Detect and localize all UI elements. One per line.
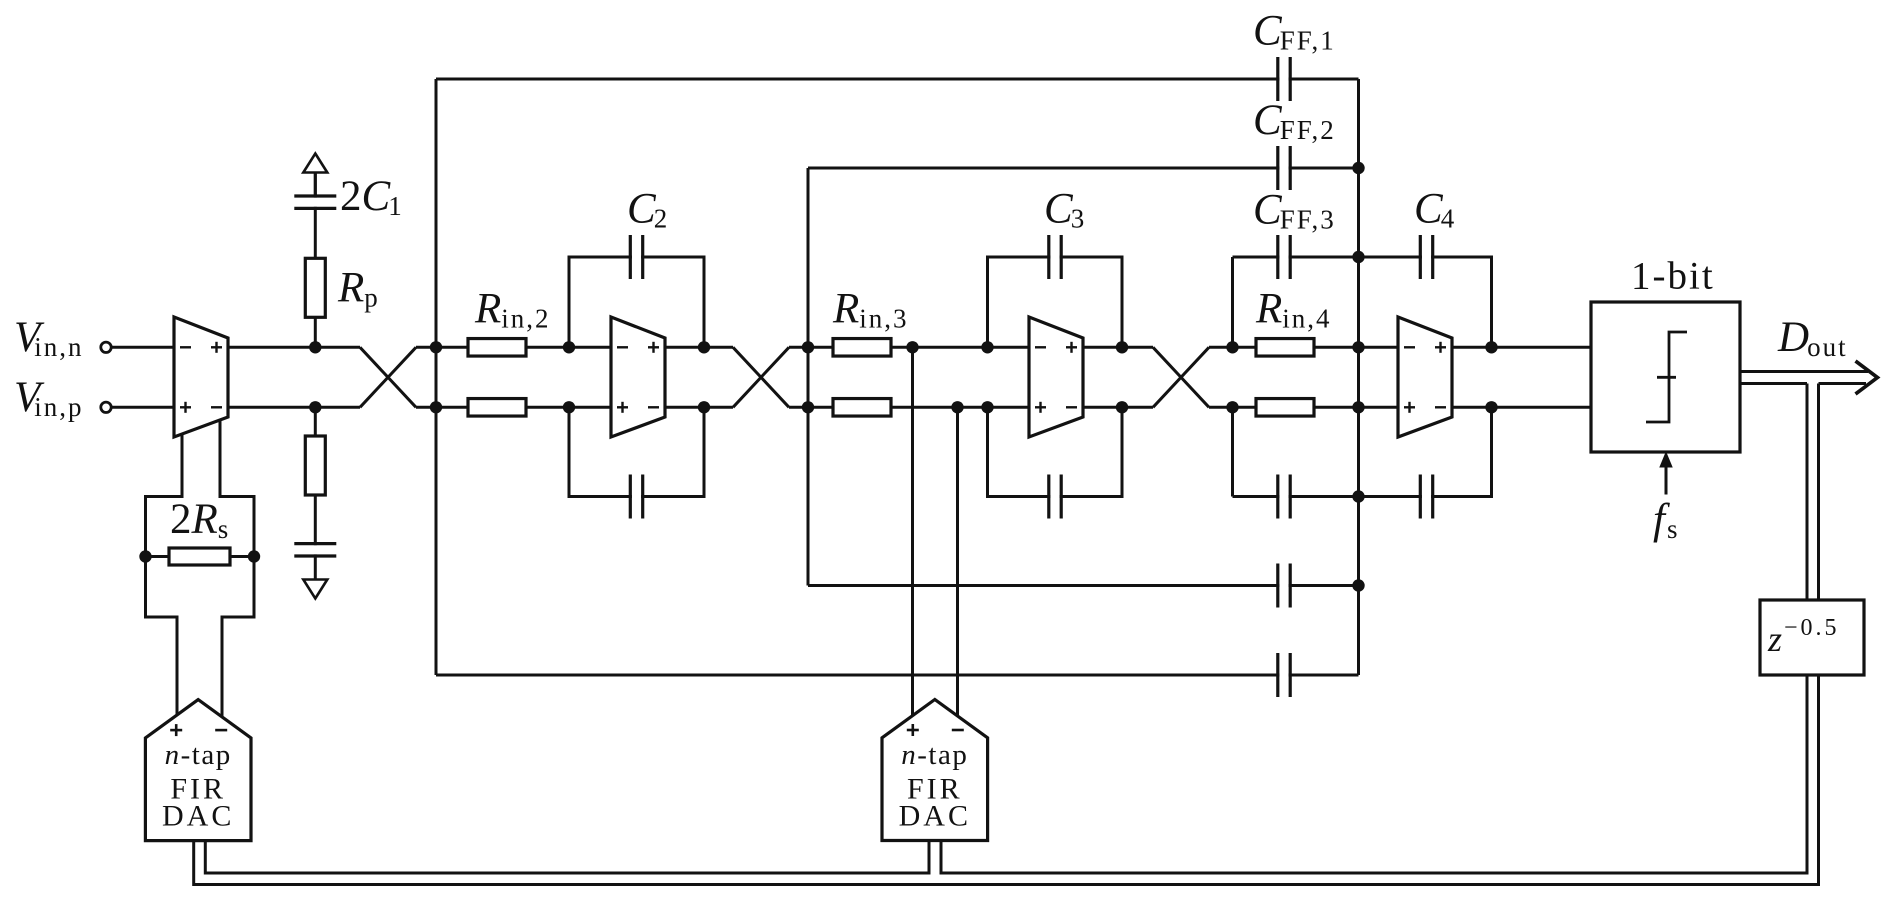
capacitor C3 (top): [1050, 233, 1059, 281]
op-amp U3: [1029, 317, 1083, 437]
wire CFF,3' left vertical (bottom): [1231, 407, 1234, 496]
junction node (1122,407): [1116, 401, 1128, 413]
svg-text:n-tap: n-tap: [165, 739, 232, 771]
wire C2 bottom loop: [569, 407, 704, 496]
reference arrow down (bottom): [303, 580, 327, 599]
wire Rp' branch (bottom): [314, 407, 317, 583]
junction node (1358,496): [1352, 490, 1364, 502]
FIR DAC block DAC2: [882, 700, 988, 841]
wire 2Rs resistor link: [146, 555, 255, 558]
junction node (704,347): [698, 341, 710, 353]
resistor Rin,4 (top): [1256, 339, 1314, 357]
wire input Vin,n to op-amp U1: [112, 346, 175, 349]
wire U1 to 2Rs loop left: [146, 433, 183, 716]
svg-text:n-tap: n-tap: [901, 739, 968, 771]
junction node (808,407): [802, 401, 814, 413]
junction node (808,347): [802, 341, 814, 353]
wire DAC1 output left to bus (lower): [194, 384, 1819, 885]
junction node (1491,407): [1485, 401, 1497, 413]
resistor Rin,2' (bottom): [468, 399, 526, 417]
junction node (436,347): [430, 341, 442, 353]
wire bottom rail U1 output to crossover 1: [174, 406, 360, 409]
wire C4 top loop right side: [1233, 257, 1492, 347]
fs clock arrow: [1665, 465, 1668, 495]
wire top rail crossover 2 to op-amp U3: [789, 346, 1153, 349]
resistor Rin,4' (bottom): [1256, 399, 1314, 417]
op-amp U1: [174, 317, 228, 437]
junction node (569,407): [563, 401, 575, 413]
junction node (987,407): [981, 401, 993, 413]
capacitor CFF,3: [1279, 233, 1288, 281]
wire top rail U1 output to crossover 1: [174, 346, 360, 349]
wire Dout arrow shaft bottom right: [1819, 382, 1867, 385]
wire crossover 3 diagonal (bottom-left to top-right): [1153, 347, 1209, 407]
junction node (315,407): [309, 401, 321, 413]
capacitor CFF,3' (bottom): [1279, 473, 1288, 521]
wire CFF,2 line: [808, 167, 1359, 170]
capacitor 2C1 (top): [292, 198, 338, 207]
DAC1 minus sign: [215, 729, 227, 732]
DAC1 plus sign: [170, 729, 182, 732]
wire DAC1 output right to bus (upper): [205, 841, 929, 874]
junction node (1232,407): [1226, 401, 1238, 413]
junction node (315,347): [309, 341, 321, 353]
wire CFF,3 left vertical: [1231, 257, 1234, 347]
terminal Vin,n: [101, 342, 111, 352]
wire bottom rail crossover 2 to op-amp U3: [789, 406, 1153, 409]
wire feedforward vertical node B (x=808): [807, 168, 810, 586]
junction node (1358,257): [1352, 251, 1364, 263]
junction node (1358,585): [1352, 579, 1364, 591]
wire C3 bottom loop: [988, 407, 1123, 496]
Dout arrowhead: [1856, 361, 1878, 394]
junction node (1491,347): [1485, 341, 1497, 353]
capacitor C3' (bottom): [1050, 473, 1059, 521]
wire feedforward vertical node A (x=436): [435, 79, 438, 675]
wire bottom rail crossover 1 to op-amp U2: [416, 406, 733, 409]
junction node (254,556): [248, 550, 260, 562]
wire C2 top loop: [569, 257, 704, 347]
junction node (436,407): [430, 401, 442, 413]
junction node (957,407): [951, 401, 963, 413]
junction node (145,556): [139, 550, 151, 562]
junction node (1232,347): [1226, 341, 1238, 353]
wire DAC2 plus input from top rail: [911, 347, 914, 716]
wire arrow to 2C1: [314, 173, 317, 197]
capacitor CFF,1: [1279, 55, 1288, 103]
delay block z^-0.5: [1760, 600, 1864, 675]
wire Rp branch (top): [314, 168, 317, 347]
wire crossover 2 diagonal (bottom-left to top-right): [733, 347, 789, 407]
resistor Rp: [305, 258, 325, 317]
capacitor CFF,2' (bottom): [1279, 562, 1288, 610]
wire C4 bottom loop right side: [1233, 407, 1492, 496]
svg-text:DAC: DAC: [162, 800, 234, 833]
op-amp U2: [611, 317, 665, 437]
wire CFF,1 top line: [436, 78, 1359, 81]
capacitor C2 (top): [632, 233, 641, 281]
junction node (1122,347): [1116, 341, 1128, 353]
capacitor CFF,1' (bottom): [1279, 651, 1288, 699]
DAC2 minus sign: [952, 729, 964, 732]
quantizer block (1-bit): [1591, 302, 1740, 452]
resistor Rin,3 (top): [833, 339, 891, 357]
capacitor C2' (bottom): [632, 473, 641, 521]
capacitor C4 (top): [1422, 233, 1431, 281]
junction node (912,347): [906, 341, 918, 353]
junction node (704,407): [698, 401, 710, 413]
wire Dout arrow shaft top: [1740, 370, 1868, 373]
wire DAC2 output right to z-block: [941, 384, 1807, 874]
wire summing vertical node C (x=1358.5): [1357, 79, 1360, 675]
resistor Rin,2 (top): [468, 339, 526, 357]
wire crossover 3 diagonal (top-left to bottom-right): [1153, 347, 1209, 407]
wire U1 to 2Rs loop right: [220, 419, 254, 716]
quantizer step symbol: [1646, 332, 1687, 422]
resistor Rin,3' (bottom): [833, 399, 891, 417]
svg-text:1-bit: 1-bit: [1631, 255, 1715, 298]
wire input Vin,p to op-amp U1: [112, 406, 175, 409]
wire DAC2 minus input from bottom rail: [956, 407, 959, 716]
wire crossover 1 diagonal (top-left to bottom-right): [360, 347, 416, 407]
junction node (1358,347): [1352, 341, 1364, 353]
reference arrow up (2C1 top): [303, 154, 327, 173]
terminal Vin,p: [101, 402, 111, 412]
capacitor 2C1' (bottom): [292, 545, 338, 554]
capacitor CFF,2: [1279, 144, 1288, 192]
wire top rail crossover 1 to op-amp U2: [416, 346, 733, 349]
op-amp U4: [1398, 317, 1452, 437]
wire bottom rail crossover 3 to quantizer: [1209, 406, 1591, 409]
junction node (1358,407): [1352, 401, 1364, 413]
resistor 2Rs: [169, 548, 230, 565]
svg-text:DAC: DAC: [899, 800, 971, 833]
capacitor C4' (bottom): [1422, 473, 1431, 521]
wire crossover 2 diagonal (top-left to bottom-right): [733, 347, 789, 407]
junction node (1358,168): [1352, 162, 1364, 174]
wire CFF,1' line (bottom): [436, 674, 1359, 677]
resistor Rp' (bottom): [305, 436, 325, 495]
DAC2 plus sign: [907, 729, 919, 732]
junction node (987,347): [981, 341, 993, 353]
wire top rail crossover 3 to quantizer: [1209, 346, 1591, 349]
wire crossover 1 diagonal (bottom-left to top-right): [360, 347, 416, 407]
wire CFF,2' line (bottom): [808, 584, 1359, 587]
wire Dout arrow shaft bottom left: [1740, 382, 1807, 385]
junction node (569,347): [563, 341, 575, 353]
wire C3 top loop: [988, 257, 1123, 347]
FIR DAC block DAC1: [145, 700, 251, 841]
